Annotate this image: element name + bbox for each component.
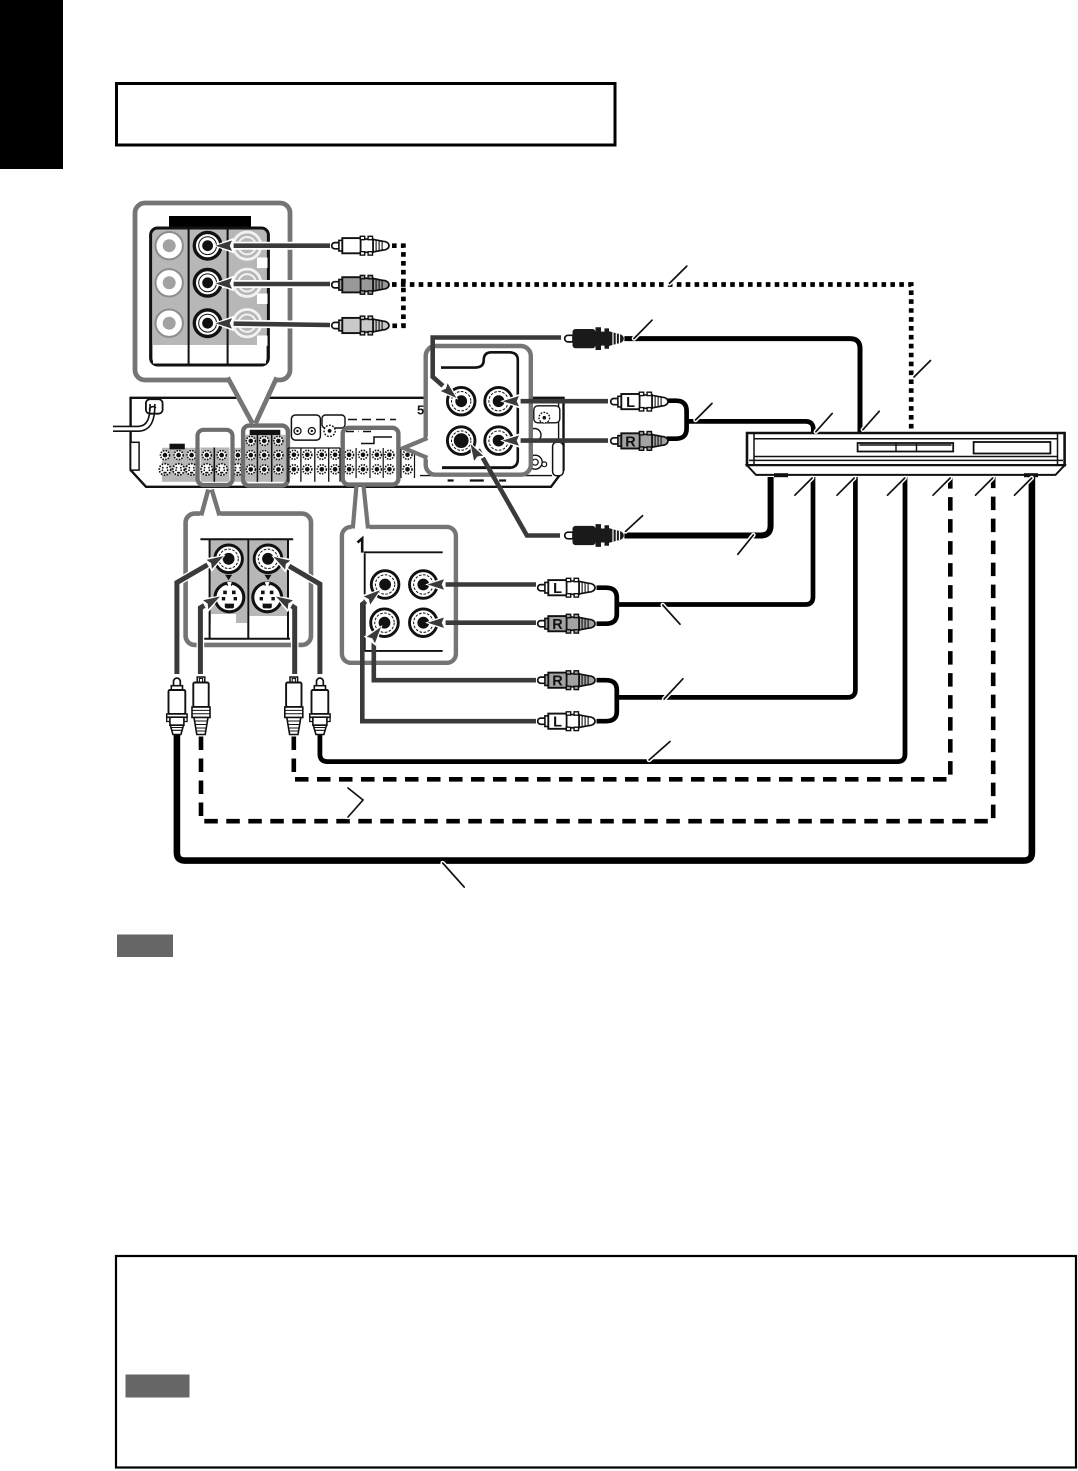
indicator: pair2 L into middle TL jack	[362, 597, 536, 722]
wire: audio pair 2 run to DVD underside	[597, 477, 856, 721]
svg-text:5: 5	[417, 403, 424, 418]
ref mark: bottom coax cable near plug	[626, 516, 643, 532]
arrow: gray plug to component Pb jack	[222, 280, 330, 288]
ref mark: outer run	[443, 863, 465, 887]
antenna terminal label box	[291, 415, 320, 440]
DVD base skirt	[747, 465, 1065, 475]
receiver right side: screw jack	[534, 406, 560, 423]
arrow: white plug to component Y jack	[222, 242, 330, 250]
left jack field (gray)	[162, 448, 242, 482]
svg-text:L: L	[553, 715, 562, 731]
sidebar tab (black)	[0, 0, 63, 169]
ref marks: cables under DVD	[795, 478, 812, 495]
svg-text:R: R	[552, 674, 563, 690]
svg-text:L: L	[626, 395, 635, 411]
RCA plug gray (component Pb)	[332, 275, 389, 294]
jacks right of box 3	[401, 448, 415, 478]
DVD input jack TR	[410, 571, 438, 599]
monitor RCA jack right	[254, 545, 282, 573]
arrow: upper L plug into TR jack	[512, 399, 608, 404]
callout: component video input detail	[135, 203, 290, 380]
coax plug top (black)	[565, 327, 624, 350]
receiver left inner bracket	[131, 442, 140, 470]
audio in jack BR (R)	[485, 427, 513, 455]
arrow: pair1 L into middle TR jack	[434, 582, 536, 587]
ref mark: upper pair run	[696, 403, 713, 420]
plug L pair2	[538, 712, 595, 731]
RCA plug light (component Pr)	[332, 316, 389, 335]
audio in jack TR (L)	[485, 387, 513, 415]
indicator: plug1 to monitor RCA left	[177, 561, 215, 675]
highlight box 3 border	[343, 428, 399, 485]
DVD display window	[974, 442, 1051, 454]
ref mark: coax cable	[634, 320, 652, 338]
plug R pair2	[538, 671, 595, 690]
plug R pair1	[538, 614, 595, 633]
video in jack BL	[447, 427, 475, 455]
arrow: pair1 R into middle BR jack	[434, 620, 536, 625]
DVD player body	[747, 433, 1065, 465]
component jacks column 1	[156, 232, 183, 259]
ref mark: dashed runs chevron	[348, 788, 363, 817]
ref mark: pair2 run	[664, 679, 683, 699]
callout: DVD input jacks detail	[342, 527, 456, 663]
panel bracket lines	[364, 552, 443, 651]
indicator: bottom coax plug to video jack BL	[478, 450, 560, 536]
wire: dashed s-video cable (plug 2)	[201, 477, 993, 821]
vertical RCA plug 1	[167, 678, 187, 734]
vertical s-video plug 3	[285, 677, 303, 735]
ref mark: dotted vertical	[914, 361, 931, 378]
vertical RCA plug 4	[310, 678, 330, 734]
indicator: plug4 to monitor RCA right	[283, 563, 320, 675]
ref mark: plug4 run	[649, 742, 670, 761]
monitor panel columns	[211, 540, 248, 623]
indicator: plug2 to monitor s-video left	[200, 602, 211, 675]
note label box 2	[126, 1375, 190, 1398]
wire: cable from RCA plug 4 to DVD underside	[320, 477, 905, 762]
note label box 1	[117, 935, 173, 958]
wire: video cable from bottom black plug to DVD underside	[624, 477, 770, 536]
highlight box 1 contents	[200, 432, 232, 484]
monitor RCA jack left	[215, 545, 243, 573]
ref mark: bottom coax cable near corner	[738, 535, 754, 554]
monitor s-video jack right	[253, 582, 282, 612]
highlight box 2 border	[243, 426, 288, 486]
indicator: pair2 R into middle BL jack	[374, 632, 536, 681]
highlight box 2 contents (component video block)	[245, 428, 286, 484]
DVD feet	[774, 473, 788, 477]
DVD input jack TL	[371, 571, 399, 599]
DVD input jack BL	[371, 609, 399, 637]
receiver right side jacks	[528, 429, 541, 442]
DVD disc tray	[858, 443, 954, 452]
receiver chassis	[131, 398, 564, 487]
wire: upper L/R pair tails and run to DVD	[667, 401, 814, 439]
ghost label dashes	[348, 420, 396, 434]
power cord grommet	[146, 399, 163, 414]
middle jack strips	[288, 448, 340, 482]
wire: dashed s-video cable (plug 3)	[294, 477, 951, 779]
receiver jacks: analog inputs row	[161, 451, 170, 460]
indicator: coax plug to video jack TL	[433, 338, 561, 390]
callout: monitor out detail	[186, 514, 311, 645]
ref mark: DVD top cable a	[816, 413, 832, 431]
wire: coax cable from top black plug to DVD	[624, 339, 860, 432]
plug R upper	[611, 432, 668, 451]
video in jack TL	[447, 387, 475, 415]
ground screw terminal	[324, 425, 335, 436]
svg-text:R: R	[552, 617, 563, 633]
second label box	[322, 415, 345, 428]
wire: audio pair 1 run to DVD underside	[597, 477, 814, 624]
numeral 1	[358, 539, 363, 553]
component block header bar	[169, 216, 251, 229]
callout: DVD video/audio in detail	[426, 346, 531, 475]
plug L pair1	[538, 578, 595, 597]
title box	[117, 84, 616, 146]
power cord	[113, 404, 153, 429]
receiver right edge tab	[553, 442, 564, 475]
DVD input jack BR	[410, 609, 438, 637]
arrow: light plug to component Pr jack	[224, 324, 330, 326]
svg-text:L: L	[553, 581, 562, 597]
vertical s-video plug 2	[192, 677, 210, 735]
component jacks column 2 (highlighted)	[194, 232, 221, 259]
component block panel	[151, 228, 269, 365]
ref mark: dotted line	[669, 266, 686, 283]
component jacks column 3	[233, 232, 260, 259]
indicator: plug3 to monitor s-video right	[285, 602, 295, 675]
receiver jacks: s-video row	[159, 464, 170, 475]
arrow: upper R plug into BR jack	[512, 438, 608, 443]
coax plug bottom (black)	[565, 524, 624, 547]
monitor s-video jack left	[215, 582, 244, 612]
wire: dotted component-video run to DVD	[392, 285, 911, 431]
wire: dotted component-video cable loop	[392, 246, 403, 326]
ref mark: pair1 run	[663, 605, 680, 624]
RCA plug white (component Y)	[332, 236, 389, 255]
plug L upper	[611, 392, 668, 411]
highlight box 1 border	[198, 430, 233, 485]
bottom frame box	[116, 1256, 1076, 1468]
highlight box 3 contents (DVD audio jacks)	[345, 430, 397, 484]
svg-text:R: R	[625, 434, 636, 450]
wire: outer cable from RCA plug 1 to DVD underside	[177, 477, 1032, 861]
ref mark: DVD top cable b	[863, 411, 879, 429]
jack panel outline with tab	[441, 352, 518, 467]
